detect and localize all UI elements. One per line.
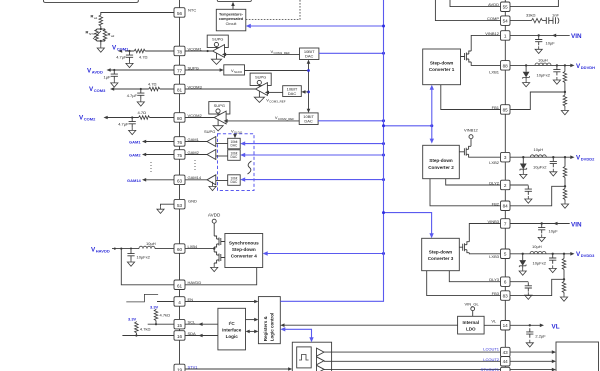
svg-text:14: 14 [503, 323, 509, 328]
svg-text:75: 75 [177, 153, 183, 158]
wire: pin 80 to opamp [185, 117, 214, 119]
arrow I2C-registers double (bottom) [249, 330, 255, 332]
pin 53 GND [174, 199, 197, 209]
wire AVDD right up and out [510, 0, 558, 7]
wire COMP left up and out [435, 0, 500, 21]
svg-text:61: 61 [177, 283, 183, 288]
svg-text:LDO: LDO [466, 327, 476, 332]
pin 43 LCOUT1 [483, 347, 510, 357]
resistor 4.7ohm [134, 49, 145, 53]
svg-text:1µF: 1µF [104, 74, 112, 79]
inductor L1 10uH [535, 63, 551, 65]
pin 63 GAM14 [174, 175, 202, 185]
resistor 4.7ohm [149, 87, 160, 91]
wire: pin 78 to opamp [185, 50, 213, 52]
converter 4 box [225, 234, 263, 268]
wire conv3 to DLY3 [449, 271, 500, 282]
DAC g1 [228, 138, 241, 149]
wire FET3 to LXB3 [469, 253, 500, 254]
op-amp with SUPG [250, 73, 271, 102]
pin 80 VCOM2 [174, 113, 203, 123]
svg-text:LXB1: LXB1 [489, 70, 500, 75]
pin 19 STV1 [174, 364, 198, 371]
FB1 divider R1a [564, 65, 566, 107]
transistor M2 [459, 146, 471, 157]
wire: pin 77 to left [110, 69, 174, 71]
inductor L3 10uH [530, 251, 546, 253]
svg-text:Temperature-: Temperature- [219, 13, 244, 17]
VIN wire right of pin1 [510, 34, 570, 36]
LXB2 output net [510, 156, 572, 158]
svg-text:LXB2: LXB2 [489, 160, 500, 165]
svg-text:Step-down: Step-down [429, 158, 453, 163]
DAC g14 [228, 175, 241, 186]
pin 60 LXB4 [174, 244, 198, 254]
pin 77 SUPG [174, 65, 199, 75]
svg-text:VIN: VIN [571, 221, 582, 228]
svg-text:4.7µF: 4.7µF [127, 93, 138, 98]
wire pin 77 to VSLDO [185, 69, 220, 71]
capacitor 4.7uF [126, 52, 133, 61]
op-amp with SUPG [207, 35, 228, 64]
svg-text:1: 1 [504, 33, 507, 38]
resistor Ra2 (right branch) [104, 29, 106, 41]
wire: junction down to pin 61 [121, 249, 174, 285]
svg-text:DVDD2: DVDD2 [581, 157, 595, 162]
svg-text:Circuit: Circuit [226, 22, 238, 26]
svg-text:84: 84 [503, 204, 509, 209]
resistor Ra1 [99, 15, 103, 26]
svg-text:Converter 2: Converter 2 [428, 165, 454, 170]
pin 81 VCOM3 [174, 84, 203, 94]
pin 15 SCL [174, 319, 196, 329]
ground [111, 80, 118, 87]
COMP RC network [510, 17, 556, 24]
wire: IC left edge vertical line [179, 0, 181, 371]
wire rail to DAC3 [305, 91, 309, 93]
EN step waveform [126, 294, 158, 302]
svg-text:SLDO: SLDO [234, 70, 243, 74]
squiggle continuation mark [248, 161, 252, 174]
diode D2 [520, 157, 527, 171]
svg-text:78: 78 [177, 50, 183, 55]
svg-text:HAVDD: HAVDD [96, 248, 110, 253]
FB3 divider [563, 254, 565, 294]
pin 44 LCOUT2 [483, 357, 510, 367]
transistor M-high [214, 236, 225, 247]
svg-text:COM3_REF: COM3_REF [269, 99, 286, 103]
DLY3 cap [510, 281, 528, 283]
diode D1 [523, 65, 530, 79]
blue wire bus to converters 1/2 [384, 125, 432, 127]
converter 1 box [423, 49, 461, 85]
node: parallel bottom [97, 41, 105, 45]
svg-text:VINB12: VINB12 [464, 128, 479, 133]
transistor M1 [461, 51, 472, 62]
svg-text:COM2_REF: COM2_REF [278, 117, 295, 121]
capacitor 1uF [111, 71, 118, 80]
svg-text:60: 60 [177, 247, 183, 252]
svg-text:DDVDH: DDVDH [581, 65, 595, 70]
svg-text:4.7Ω: 4.7Ω [139, 55, 148, 60]
svg-text:compensated: compensated [219, 17, 244, 21]
svg-text:STVOUT1: STVOUT1 [481, 367, 500, 371]
level shifter box [292, 342, 331, 371]
svg-text:4.7µF: 4.7µF [116, 55, 127, 60]
converter 3 box [422, 238, 460, 270]
pin 83 FB3 [492, 291, 510, 301]
svg-text:NTC: NTC [188, 8, 196, 13]
svg-text:SUPG: SUPG [204, 129, 215, 134]
blue wire to temp circuit [250, 25, 384, 27]
FB2 feedback wire [510, 186, 565, 206]
svg-text:85: 85 [503, 107, 509, 112]
svg-text:2.2µF: 2.2µF [535, 334, 546, 339]
temperature compensated circuit box U-temp [216, 9, 246, 31]
arrow I2C to registers (top) [246, 319, 255, 321]
svg-text:15: 15 [177, 323, 183, 328]
I2C interface logic box [218, 308, 246, 350]
FB1 feedback wire [510, 92, 565, 110]
buffer triangles [317, 348, 325, 356]
svg-text:DVDD3: DVDD3 [581, 253, 595, 258]
wire EN to registers [185, 301, 255, 303]
resistor 4.7ohm [139, 116, 150, 120]
pin 75 GAM2 [174, 150, 200, 160]
ground [97, 45, 104, 52]
svg-text:Synchronous: Synchronous [229, 241, 259, 246]
svg-text:AVDD: AVDD [92, 70, 103, 75]
svg-text:VL: VL [491, 318, 497, 323]
capacitor 10uFx2 [127, 250, 134, 259]
svg-text:10µFx2: 10µFx2 [537, 73, 551, 78]
svg-text:2: 2 [504, 183, 507, 188]
wire: Ra1 to parallel pair [100, 26, 102, 29]
svg-text:10µF: 10µF [546, 41, 556, 46]
wire VL from LDO to registers [284, 324, 458, 326]
DAC supply rail vertical [307, 60, 311, 113]
svg-text:GND: GND [188, 199, 197, 204]
node [113, 69, 115, 71]
svg-text:LXB3: LXB3 [489, 254, 500, 259]
svg-text:44: 44 [503, 359, 509, 364]
svg-text:10µF: 10µF [549, 229, 559, 234]
svg-text:Converter 4: Converter 4 [231, 254, 257, 259]
svg-text:Interface: Interface [222, 328, 242, 333]
svg-text:4.7µF: 4.7µF [118, 122, 129, 127]
wire GAM2 out [146, 154, 174, 156]
node dots [114, 248, 116, 250]
wire: dashed feedback from temp box to top [246, 0, 300, 19]
svg-text:AVDD: AVDD [208, 212, 221, 217]
ground [127, 259, 134, 266]
svg-text:Step-down: Step-down [429, 250, 453, 255]
svg-text:DAC: DAC [288, 91, 297, 96]
wire: pin 53 to ground [161, 204, 175, 206]
op-amp with SUPG [209, 102, 230, 131]
svg-text:LCOUT2: LCOUT2 [483, 357, 500, 362]
svg-text:33kΩ: 33kΩ [526, 13, 535, 18]
svg-text:54: 54 [503, 19, 509, 24]
VL output net [510, 324, 542, 326]
svg-text:DAC: DAC [304, 119, 313, 124]
DAC U-DAC1 [300, 48, 319, 60]
box above temperature circuit cut off [217, 0, 251, 2]
svg-text:a2: a2 [111, 34, 115, 38]
FB2 divider [564, 157, 566, 201]
capacitor 10uFx2 [553, 66, 560, 75]
wire: NTC pin to resistor network [101, 13, 174, 16]
wires pins to panel box [510, 351, 553, 353]
wire AVDD down to high-side FET [213, 223, 215, 236]
resistor 4.7k SDA [135, 321, 137, 335]
svg-text:4.7kΩ: 4.7kΩ [140, 326, 151, 331]
wire VSLDO to DAC rail [245, 70, 309, 72]
svg-text:10µH: 10µH [538, 58, 548, 63]
wire SCL [148, 323, 174, 325]
box top-left cut off [44, 0, 139, 2]
wire pin7 to FET conv3 [469, 224, 500, 242]
svg-text:3: 3 [504, 155, 507, 160]
pin 5 LXB3 [489, 249, 510, 259]
converter 2 box [423, 145, 460, 178]
pin 54 COMP [487, 16, 510, 26]
wire: IC right edge vertical line [504, 0, 506, 371]
svg-text:10µH: 10µH [534, 147, 544, 152]
resistor 4.7k SCL [155, 309, 157, 324]
svg-text:76: 76 [177, 140, 183, 145]
svg-text:Converter 3: Converter 3 [428, 256, 454, 261]
dotted ellipsis mid [194, 160, 196, 172]
ground under GAM14 buffer [212, 182, 214, 184]
wire conv2 to FB2 [430, 179, 501, 206]
inductor 10uH [139, 246, 155, 248]
pin 55 AVDD [488, 2, 510, 12]
capacitor 4.7uF [137, 90, 144, 99]
wire LDO to pin 14 [484, 324, 500, 326]
pin 7 VINB3 [487, 219, 510, 229]
wire: pin 78 to left [125, 50, 174, 52]
transistor M-low [214, 252, 225, 263]
wire FET to LXB4 node [213, 247, 215, 252]
pin 88 LXB1 [489, 61, 510, 75]
wire: pin 81 to opamp [185, 88, 256, 90]
arrow and label VDVDDH [570, 64, 574, 68]
blue wire DAC1 to bus [319, 52, 384, 54]
pin 56 NTC [174, 8, 196, 18]
svg-text:LCOUT1: LCOUT1 [483, 347, 500, 352]
svg-text:4.7Ω: 4.7Ω [148, 81, 157, 86]
ground [129, 127, 136, 134]
buffer GAM14 [185, 179, 207, 181]
svg-text:Step-down: Step-down [232, 247, 256, 252]
inductor L2 10uH [530, 155, 546, 157]
pin 84 FB2 [492, 201, 510, 211]
svg-text:Logic control: Logic control [269, 313, 274, 342]
svg-text:6: 6 [504, 280, 507, 285]
wire pin1 to FET conv1 [471, 35, 500, 51]
svg-text:7: 7 [504, 221, 507, 226]
blue wire bus to converter 3 [384, 213, 432, 235]
registers and logic control box [258, 297, 280, 344]
input wire from DAC1 [226, 53, 300, 55]
ground [137, 99, 144, 106]
svg-text:1nF: 1nF [552, 13, 559, 18]
buffer GAM2 [185, 154, 207, 156]
wire FET2 to LXB2 [471, 156, 501, 158]
resistor RNTC (left branch, with arrow) [96, 29, 98, 41]
svg-text:3.3V: 3.3V [128, 317, 137, 322]
LXB1 output net [510, 64, 572, 66]
capacitor 10uFx2 [550, 158, 557, 167]
svg-text:3.3V: 3.3V [150, 304, 159, 309]
svg-text:DAC: DAC [231, 144, 238, 148]
bus vertical [280, 0, 383, 301]
svg-text:a1: a1 [94, 16, 98, 20]
wire SDA into I2C [185, 335, 218, 337]
diode D3 [519, 254, 526, 268]
DAC U-DAC3 [283, 86, 302, 97]
blue wires bus to gamma DACs [240, 141, 385, 181]
wires level shifter to pins 43/44/45 [324, 351, 501, 353]
svg-text:5: 5 [504, 252, 507, 257]
buffer GAM1 [185, 141, 207, 143]
svg-text:83: 83 [503, 294, 509, 299]
svg-text:VL: VL [552, 324, 560, 331]
svg-text:COM2: COM2 [84, 117, 96, 122]
arrow VCOM1 [118, 49, 122, 53]
capacitor 4.7uF [129, 118, 136, 127]
svg-text:81: 81 [177, 88, 183, 93]
capacitor 10uFx2 [549, 254, 556, 263]
wire: VHAVDD node line [112, 248, 174, 250]
DLY2 cap [510, 184, 528, 186]
svg-text:4.7kΩ: 4.7kΩ [160, 313, 171, 318]
svg-text:DAC: DAC [231, 155, 238, 159]
svg-text:VIN_GL: VIN_GL [465, 301, 480, 306]
svg-text:Step-down: Step-down [430, 61, 454, 66]
pin 14 VL [501, 321, 511, 331]
wire: pin 81 to left [114, 88, 175, 90]
transistor M3 [459, 242, 469, 253]
pin 16 SDA [174, 331, 196, 341]
wire: pin 60 to node [185, 248, 214, 250]
blue wire registers to level shifter [285, 329, 312, 338]
wire FET to LXB1 [471, 62, 500, 65]
svg-text:10µFx2: 10µFx2 [137, 254, 151, 259]
svg-text:53: 53 [177, 203, 183, 208]
capacitor 2.2uF [526, 328, 533, 337]
svg-text:VIN: VIN [571, 33, 582, 40]
blue wire DAC2 to bus [318, 120, 383, 122]
pin 4 EN [174, 297, 193, 307]
node: parallel top [97, 28, 105, 30]
svg-text:Logic: Logic [226, 334, 239, 339]
pin 2 DLY2 [489, 180, 510, 190]
svg-text:COM1: COM1 [117, 47, 129, 52]
svg-text:DAC: DAC [231, 180, 238, 184]
wire: pin 4 stub [157, 301, 174, 303]
arrow and label VDVDD2 [570, 155, 574, 159]
wire GAM14 out [146, 179, 174, 181]
svg-text:88: 88 [503, 63, 509, 68]
internal LDO box [458, 316, 485, 334]
LXB3 output net [510, 253, 572, 255]
svg-text:10µH: 10µH [532, 244, 542, 249]
svg-text:NTC: NTC [89, 32, 96, 36]
pin 45 STVOUT1 [481, 367, 510, 371]
svg-text:Registers &: Registers & [263, 315, 268, 341]
svg-text:55: 55 [503, 5, 509, 10]
svg-text:DAC: DAC [305, 54, 314, 59]
svg-text:GAM2: GAM2 [129, 153, 141, 158]
pin 78 VCOM1 [174, 46, 203, 56]
dashed blue gamma DAC box [218, 134, 255, 191]
capacitor 10uF at VINB12 [535, 36, 542, 45]
wire VSLDO down arrow into DAC g1 [234, 134, 236, 136]
dotted ellipsis left [150, 162, 152, 174]
pulse generator inner box [297, 347, 312, 368]
capacitor 10uF at VINB3 [538, 224, 545, 233]
svg-text:77: 77 [177, 69, 183, 74]
svg-text:AVDD: AVDD [488, 2, 499, 7]
DAC g2 [228, 150, 241, 161]
wire conv4 to HAVDD pin 61 [185, 268, 257, 285]
VIN wire right of pin7 [510, 223, 570, 225]
blue wire bus to conv4 [268, 253, 384, 255]
wire conv2 to DLY2 [446, 179, 501, 185]
svg-text:Converter 1: Converter 1 [429, 67, 455, 72]
svg-text:COM1_REF: COM1_REF [274, 51, 291, 55]
panel box [556, 342, 599, 371]
svg-text:GAM1: GAM1 [129, 140, 141, 145]
wire STV1 to level shifter [185, 368, 289, 370]
arrow VCOM2 [104, 116, 108, 120]
DAC U-DAC2 [299, 113, 318, 125]
wire conv3 to FB3 [427, 271, 501, 296]
svg-text:4.7Ω: 4.7Ω [138, 110, 147, 115]
svg-text:56: 56 [177, 11, 183, 16]
FB3 feedback wire [510, 279, 564, 295]
svg-text:Internal: Internal [463, 320, 480, 325]
wire AVDD left up and out [450, 0, 501, 7]
pin 3 LXB2 [489, 152, 510, 165]
input wire from DAC2 [228, 120, 300, 122]
svg-text:63: 63 [177, 179, 183, 184]
wire SCL into I2C [185, 323, 218, 325]
svg-text:HAVDD: HAVDD [188, 280, 202, 285]
pin 61 HAVDD [174, 280, 201, 290]
svg-text:80: 80 [177, 116, 183, 121]
svg-text:4: 4 [178, 300, 181, 305]
svg-text:GAM14: GAM14 [127, 178, 142, 183]
node [131, 116, 133, 118]
pin 6 DLY3 [489, 277, 510, 287]
ground [126, 60, 133, 67]
node VCOM1 [128, 50, 130, 52]
svg-text:10µFx2: 10µFx2 [533, 164, 547, 169]
wire conv1 to FB1 [441, 85, 501, 110]
svg-text:16: 16 [177, 334, 183, 339]
wire SDA [122, 335, 174, 337]
node [140, 88, 142, 90]
wire GAM1 out [146, 141, 174, 143]
svg-text:19: 19 [177, 368, 183, 371]
wire: arrow up into box from temp circuit [232, 4, 234, 9]
svg-text:SLDO: SLDO [234, 130, 243, 134]
arrow and label VDVDD3 [570, 252, 574, 256]
ground under low FET [213, 263, 215, 264]
